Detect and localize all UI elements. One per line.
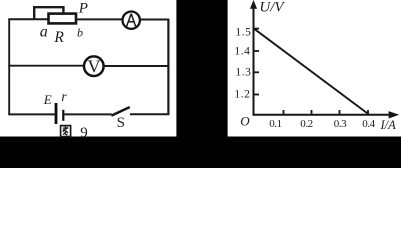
svg-text:1.5: 1.5 <box>235 26 251 38</box>
graph x-axis arrowhead <box>389 111 400 118</box>
y tick 1.3 <box>254 71 260 73</box>
voltmeter V <box>84 56 104 76</box>
svg-text:0.1: 0.1 <box>269 118 282 130</box>
svg-text:0.2: 0.2 <box>300 118 313 130</box>
ammeter A <box>123 12 140 29</box>
slider tap P wire <box>34 7 63 19</box>
svg-text:a: a <box>40 23 48 40</box>
wire bottom segment left <box>8 113 54 115</box>
figure label 图 (drawn glyph) <box>61 126 71 137</box>
U-I data line <box>254 28 370 114</box>
resistor R <box>49 14 77 24</box>
svg-text:E: E <box>43 92 52 107</box>
svg-text:P: P <box>78 0 88 16</box>
black separator bar <box>176 0 227 138</box>
y tick 1.4 <box>254 50 260 52</box>
graph y-axis arrowhead <box>250 0 257 9</box>
wire top segment middle <box>76 18 122 20</box>
svg-text:I/A: I/A <box>380 118 397 132</box>
svg-text:V: V <box>88 57 101 77</box>
x tick 0.3 <box>339 110 341 114</box>
svg-text:O: O <box>240 113 250 128</box>
wire left vertical <box>8 19 10 115</box>
svg-text:9: 9 <box>80 125 88 141</box>
graph y-axis <box>253 2 255 116</box>
wire top segment left <box>8 18 48 20</box>
svg-text:S: S <box>117 115 125 131</box>
y tick 1.2 <box>254 94 260 96</box>
svg-text:0.4: 0.4 <box>362 118 375 130</box>
svg-text:1.3: 1.3 <box>235 67 251 79</box>
svg-text:1.4: 1.4 <box>234 46 250 58</box>
svg-text:0.3: 0.3 <box>334 118 347 130</box>
x tick 0.2 <box>311 110 313 114</box>
svg-text:b: b <box>77 26 83 40</box>
battery short plate <box>62 110 64 121</box>
switch S blade <box>111 107 129 116</box>
svg-text:R: R <box>53 29 64 46</box>
x tick 0.1 <box>283 110 285 114</box>
x tick 0.4 <box>367 110 369 114</box>
svg-text:1.2: 1.2 <box>234 88 250 100</box>
battery long plate <box>55 103 58 124</box>
y tick 1.5 <box>254 28 260 30</box>
wire bottom segment right <box>130 113 169 115</box>
svg-text:U/V: U/V <box>259 0 285 15</box>
wire middle segment left <box>8 65 84 67</box>
wire right vertical <box>167 19 169 115</box>
svg-text:r: r <box>61 89 67 104</box>
graph x-axis <box>253 114 391 116</box>
wire bottom segment middle <box>64 113 111 115</box>
wire middle segment right <box>104 65 169 67</box>
black bottom band <box>0 137 401 169</box>
wire top segment right <box>141 19 170 21</box>
